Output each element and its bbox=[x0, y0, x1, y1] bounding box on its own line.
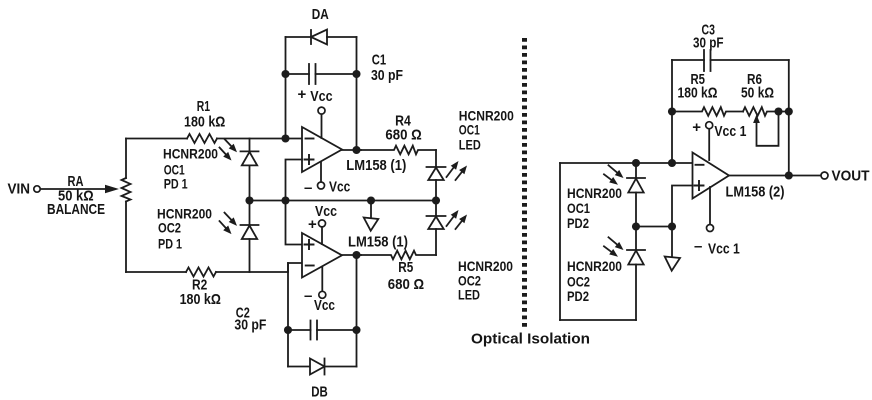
resistor R4 680 bbox=[361, 146, 436, 155]
svg-text:HCNR200: HCNR200 bbox=[567, 185, 622, 201]
node dot C1 right bbox=[352, 70, 360, 78]
label LM158 (1) top bbox=[346, 157, 406, 174]
wire R1 line right to op-amp U1a inverting input bbox=[217, 138, 302, 140]
svg-text:PD2: PD2 bbox=[567, 288, 589, 304]
svg-text:–: – bbox=[304, 288, 312, 305]
wire U1b inverting node vertical bbox=[287, 263, 289, 367]
+Vcc terminal above U1a bbox=[318, 107, 325, 138]
wire R2 line right with jog to U1b inverting input bbox=[216, 263, 302, 272]
wire U1a output bbox=[342, 149, 361, 151]
wire right box left side bbox=[559, 163, 561, 320]
svg-text:Vcc 1: Vcc 1 bbox=[714, 123, 746, 140]
wire feedback vertical to top line bbox=[671, 112, 673, 164]
light arrows into OC1 PD1 bbox=[220, 139, 238, 161]
label R6 bbox=[747, 71, 762, 88]
label LM158 (1) bottom bbox=[348, 234, 408, 251]
label C3 bbox=[693, 22, 724, 52]
svg-text:PD 1: PD 1 bbox=[158, 236, 182, 252]
svg-text:180 kΩ: 180 kΩ bbox=[184, 114, 225, 131]
svg-text:+: + bbox=[692, 119, 701, 136]
svg-text:PD 1: PD 1 bbox=[164, 176, 188, 192]
svg-text:30 pF: 30 pF bbox=[234, 317, 266, 334]
label +Vcc 1 bbox=[692, 119, 746, 140]
wire PD2 chain top bbox=[635, 163, 637, 178]
node dot output feedback bbox=[785, 171, 793, 179]
wire PD2 chain mid bbox=[635, 193, 637, 251]
label R2 bbox=[192, 277, 207, 294]
node dot R6 wiper strap bbox=[774, 107, 782, 115]
wire PD2 chain bottom bbox=[635, 265, 637, 321]
wire U1b output vertical down bbox=[356, 255, 358, 367]
wire VIN to RA wiper bbox=[41, 188, 106, 190]
node dot LED junction bbox=[432, 196, 440, 204]
terminal VIN bbox=[34, 186, 40, 192]
node dot mid line arrow stub bbox=[367, 196, 375, 204]
label R5 feedback bbox=[691, 71, 706, 88]
label HCNR200 OC1 LED bbox=[459, 108, 514, 153]
svg-text:VIN: VIN bbox=[8, 181, 31, 198]
label -Vcc U1b bbox=[304, 288, 335, 315]
label R1 value bbox=[184, 114, 225, 131]
light arrows into OC2 PD1 bbox=[220, 213, 238, 235]
emission arrows OC2 LED bbox=[447, 210, 468, 229]
label HCNR200 OC1 PD1 bbox=[163, 146, 218, 192]
label Vcc mid U1b bbox=[308, 203, 337, 233]
label -Vcc U1a bbox=[304, 179, 350, 197]
svg-text:LM158 (1): LM158 (1) bbox=[348, 234, 408, 251]
R6 wiper arrow and strap bbox=[753, 112, 778, 146]
op-amp U1a LM158 (1) top bbox=[302, 127, 342, 172]
wire R1 line left bbox=[126, 138, 187, 140]
node dot R1 / C1-DA left / U1a inverting input bbox=[281, 134, 289, 142]
label R5 value bbox=[388, 276, 424, 293]
LED HCNR200 OC1 bbox=[427, 167, 446, 180]
node dot U1a output bbox=[352, 146, 360, 154]
optical isolation dashed barrier bbox=[522, 38, 527, 330]
node dot U1b output bbox=[352, 251, 360, 259]
capacitor C1 bbox=[286, 64, 357, 84]
wire PD2 junction to U2 noninverting node bbox=[636, 226, 672, 228]
wire U1a noninverting input down to mid node and U1b noninverting input bbox=[286, 160, 303, 245]
svg-text:HCNR200: HCNR200 bbox=[163, 146, 218, 162]
light arrows into OC1 PD2 bbox=[604, 165, 624, 185]
label VIN bbox=[8, 181, 31, 198]
wire U1b output bbox=[342, 254, 361, 256]
node dot feedback right bbox=[785, 107, 793, 115]
photodiode HCNR200 OC2 PD2 bbox=[627, 250, 645, 265]
node dot mid line op-amp inputs vertical bbox=[281, 196, 289, 204]
label HCNR200 OC2 PD1 bbox=[157, 206, 212, 252]
wire pot RA top to R1 line bbox=[125, 139, 127, 179]
svg-text:+: + bbox=[308, 216, 317, 233]
wire C3 left vertical bbox=[671, 60, 673, 112]
light arrows into OC2 PD2 bbox=[604, 237, 624, 256]
diode DA feedback row bbox=[286, 30, 357, 45]
capacitor C2 bbox=[288, 321, 357, 340]
node dot feedback vertical on top line bbox=[668, 159, 676, 167]
wire LED chain bottom bbox=[435, 229, 437, 255]
label R6 value bbox=[741, 85, 774, 102]
op-amp U1b LM158 (1) bottom bbox=[302, 233, 342, 278]
label C1 bbox=[371, 52, 403, 85]
label R2 value bbox=[180, 291, 221, 308]
resistor R2 zigzag bbox=[186, 268, 216, 277]
svg-text:LED: LED bbox=[459, 137, 481, 153]
wire mid node line to LED chain bbox=[250, 200, 437, 202]
-Vcc terminal below U1b bbox=[319, 267, 326, 299]
label DB bbox=[311, 384, 328, 400]
label HCNR200 OC2 PD2 bbox=[567, 258, 622, 304]
wire LED chain mid bbox=[435, 180, 437, 216]
svg-text:C1: C1 bbox=[372, 52, 386, 69]
label VOUT bbox=[832, 168, 870, 185]
svg-text:Vcc: Vcc bbox=[315, 203, 337, 220]
node dot PD2 chain top bbox=[632, 159, 640, 167]
svg-text:50 kΩ: 50 kΩ bbox=[741, 85, 774, 102]
svg-text:DA: DA bbox=[312, 6, 329, 23]
-Vcc terminal below U1a bbox=[318, 162, 325, 189]
arrow to common (right) bbox=[665, 230, 680, 270]
svg-text:180 kΩ: 180 kΩ bbox=[180, 291, 221, 308]
capacitor C3 bbox=[672, 50, 789, 71]
wire C3 right vertical down to output bbox=[788, 60, 790, 176]
label DA bbox=[312, 6, 329, 23]
wire R2 line left bbox=[126, 271, 186, 273]
label BALANCE bbox=[47, 201, 105, 218]
photodiode HCNR200 OC1 PD1 bbox=[241, 151, 259, 165]
svg-text:HCNR200: HCNR200 bbox=[567, 258, 622, 274]
svg-text:BALANCE: BALANCE bbox=[47, 201, 105, 218]
wire DA left vertical bbox=[285, 37, 287, 139]
label RA bbox=[68, 173, 84, 190]
svg-text:LM158 (1): LM158 (1) bbox=[346, 157, 406, 174]
svg-text:180 kΩ: 180 kΩ bbox=[678, 85, 718, 102]
wire PD chain top bbox=[249, 139, 251, 152]
label R5 bbox=[398, 259, 413, 276]
wire U2 noninverting input bbox=[672, 186, 693, 227]
LED HCNR200 OC2 bbox=[427, 216, 446, 229]
label R5 feedback value bbox=[678, 85, 718, 102]
wire U2 output to VOUT bbox=[729, 175, 821, 177]
svg-text:LM158 (2): LM158 (2) bbox=[726, 184, 785, 201]
label HCNR200 OC1 PD2 bbox=[567, 185, 622, 231]
label HCNR200 OC2 LED bbox=[458, 258, 513, 303]
svg-text:PD2: PD2 bbox=[567, 215, 589, 231]
wire PD chain bottom bbox=[249, 239, 251, 272]
svg-text:OC1: OC1 bbox=[459, 122, 480, 138]
photodiode HCNR200 OC1 PD2 bbox=[627, 178, 645, 193]
svg-text:OC2: OC2 bbox=[158, 220, 181, 236]
node dot C2 left bbox=[284, 326, 292, 334]
wire top line to U2 inverting input bbox=[560, 162, 693, 164]
svg-text:OC1: OC1 bbox=[567, 200, 590, 216]
node dot PD1 junction bbox=[245, 196, 253, 204]
svg-text:+: + bbox=[298, 86, 307, 103]
svg-text:VOUT: VOUT bbox=[832, 168, 870, 185]
label C2 bbox=[234, 305, 266, 334]
wire PD chain mid bbox=[249, 165, 251, 225]
photodiode HCNR200 OC2 PD1 bbox=[241, 225, 259, 239]
svg-text:Vcc: Vcc bbox=[329, 179, 350, 196]
svg-text:–: – bbox=[694, 238, 702, 255]
RA wiper arrowhead bbox=[105, 185, 119, 194]
svg-text:Vcc: Vcc bbox=[314, 297, 335, 314]
+Vcc terminal above U1b bbox=[319, 220, 326, 244]
svg-text:Vcc 1: Vcc 1 bbox=[708, 241, 740, 258]
label R4 value bbox=[385, 127, 421, 144]
node dot feedback left bbox=[668, 107, 676, 115]
svg-text:680 Ω: 680 Ω bbox=[385, 127, 421, 144]
wire LED chain top bbox=[435, 150, 437, 167]
terminal VOUT bbox=[821, 172, 828, 179]
svg-text:R5: R5 bbox=[398, 259, 413, 276]
label R1 bbox=[197, 98, 210, 115]
svg-text:30 pF: 30 pF bbox=[693, 35, 724, 52]
wire pot RA bottom to R2 line bbox=[125, 202, 127, 273]
svg-text:DB: DB bbox=[311, 384, 328, 400]
node dot PD2 junction bbox=[632, 222, 640, 230]
label R4 bbox=[395, 113, 411, 130]
svg-text:680 Ω: 680 Ω bbox=[388, 276, 424, 293]
+Vcc 1 terminal above U2 bbox=[706, 122, 713, 160]
wire right box bottom bbox=[560, 319, 636, 321]
diode DB feedback row bbox=[288, 359, 357, 375]
-Vcc 1 terminal below U2 bbox=[707, 187, 714, 232]
node dot C2 right bbox=[352, 326, 360, 334]
node dot U2 noninverting node bbox=[668, 222, 676, 230]
wire DA right vertical bbox=[356, 37, 358, 150]
label RA value 50 kOhm bbox=[58, 187, 94, 204]
resistor R1 zigzag bbox=[187, 134, 217, 143]
emission arrows OC1 LED bbox=[447, 161, 468, 180]
resistor R5 180k feedback bbox=[672, 107, 743, 116]
label LM158 (2) bbox=[726, 184, 785, 201]
op-amp U2 LM158 (2) bbox=[693, 153, 730, 199]
resistor R5 680 bbox=[361, 251, 436, 260]
svg-text:30 pF: 30 pF bbox=[371, 67, 403, 84]
svg-text:Vcc: Vcc bbox=[310, 88, 332, 105]
svg-text:LED: LED bbox=[458, 287, 480, 303]
svg-text:–: – bbox=[304, 180, 312, 197]
label -Vcc 1 bbox=[694, 238, 740, 258]
potentiometer R6 50k zigzag bbox=[743, 107, 789, 116]
potentiometer RA zigzag bbox=[122, 178, 131, 202]
node dot C1 left bbox=[281, 70, 289, 78]
label Optical Isolation bbox=[471, 331, 590, 348]
svg-text:R1: R1 bbox=[197, 98, 210, 115]
label +Vcc U1a bbox=[298, 86, 333, 105]
svg-text:Optical Isolation: Optical Isolation bbox=[471, 331, 590, 348]
arrow to common (left) bbox=[364, 204, 379, 230]
